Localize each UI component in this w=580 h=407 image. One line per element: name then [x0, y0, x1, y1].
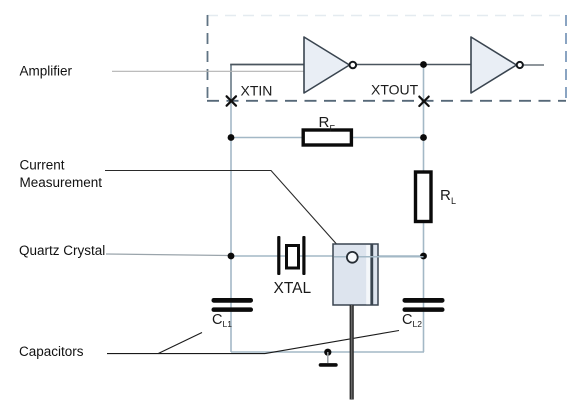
- amplifier block dashed box (bottom edge): [207, 100, 566, 102]
- amplifier block dashed box (right edge): [565, 15, 567, 99]
- svg-text:L: L: [451, 196, 456, 206]
- resistor RL: [416, 172, 432, 222]
- node XTOUT pin cross: [419, 97, 428, 106]
- leader line: Capacitors branch to CL1: [158, 333, 202, 354]
- quartz crystal XTAL: [277, 236, 305, 275]
- label Amplifier: [20, 64, 73, 79]
- junction dot crystal row left: [228, 253, 235, 260]
- svg-text:R: R: [319, 114, 330, 131]
- inverter U2: [471, 37, 523, 93]
- wire: right rail XTOUT (vertical): [423, 65, 425, 353]
- resistor RF: [303, 130, 351, 145]
- label RF: [319, 114, 336, 134]
- svg-text:Quartz Crystal: Quartz Crystal: [19, 243, 105, 258]
- svg-text:XTAL: XTAL: [274, 280, 312, 297]
- amplifier block dashed box (top edge, faint): [207, 15, 566, 17]
- svg-text:XTIN: XTIN: [241, 83, 273, 99]
- node XTOUT label: [371, 82, 419, 98]
- wire: XTOUT node to inverter U2 input: [424, 64, 472, 66]
- label CL2: [402, 312, 422, 329]
- wire: bottom horizontal wire: [231, 351, 424, 353]
- svg-text:F: F: [330, 124, 336, 134]
- ground junction dot: [324, 349, 331, 356]
- node XTIN label: [241, 83, 273, 99]
- svg-text:R: R: [440, 187, 451, 204]
- label Current Measurement: [20, 158, 103, 191]
- wire: crystal row horizontal: [231, 255, 424, 257]
- wire: inverter U2 output stub: [523, 64, 544, 66]
- probe cable: [350, 305, 354, 400]
- label Capacitors: [19, 344, 84, 359]
- junction dot crystal row right: [420, 253, 427, 260]
- node XTIN pin cross: [227, 96, 236, 105]
- svg-text:L1: L1: [223, 319, 233, 329]
- junction dot Rf left: [228, 134, 235, 141]
- capacitor CL2: [403, 298, 445, 312]
- amplifier block dashed box (left edge): [207, 15, 209, 99]
- label XTAL: [274, 280, 312, 297]
- svg-text:Current: Current: [20, 158, 65, 173]
- leader line: Capacitors (main): [107, 353, 265, 355]
- svg-text:Measurement: Measurement: [20, 175, 103, 190]
- junction dot at XTOUT top node: [420, 61, 427, 68]
- svg-text:L2: L2: [413, 319, 423, 329]
- wire: Rf row horizontal: [231, 137, 424, 139]
- label RL: [440, 187, 456, 206]
- svg-text:XTOUT: XTOUT: [371, 82, 419, 98]
- ground: [319, 352, 338, 367]
- leader line: Current Measurement: [105, 171, 337, 245]
- wire: inverter U1 input from XTIN rail: [230, 65, 304, 101]
- inverter U1: [304, 37, 356, 93]
- leader line: Capacitors branch to CL2: [265, 331, 399, 354]
- capacitor CL1 (top plate): [212, 298, 254, 312]
- svg-text:C: C: [212, 312, 222, 328]
- junction dot Rf right: [420, 134, 427, 141]
- svg-text:Capacitors: Capacitors: [19, 344, 84, 359]
- current probe U3 (current measurement device): [333, 244, 424, 305]
- svg-text:C: C: [402, 312, 412, 328]
- leader line: Amplifier: [112, 70, 304, 72]
- svg-text:Amplifier: Amplifier: [20, 64, 73, 79]
- leader line: Quartz Crystal: [106, 254, 228, 256]
- label Quartz Crystal: [19, 243, 105, 258]
- wire: inverter U1 output to XTOUT node: [356, 64, 424, 66]
- wire: left rail XTIN (vertical): [230, 65, 232, 353]
- label CL1: [212, 312, 232, 329]
